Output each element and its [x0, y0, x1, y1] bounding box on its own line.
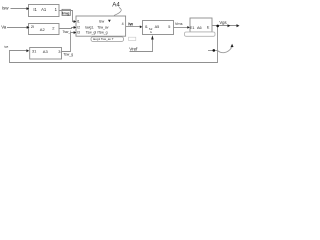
- svg-text:Isw: Isw: [99, 19, 105, 23]
- svg-text:5: 5: [168, 25, 170, 29]
- svg-text:tgs: tgs: [4, 44, 9, 48]
- svg-text:I3: I3: [77, 31, 80, 35]
- svg-text:A1: A1: [41, 7, 47, 12]
- svg-text:E: E: [207, 26, 210, 30]
- svg-text:I1: I1: [145, 25, 148, 29]
- svg-text:A6: A6: [197, 26, 202, 30]
- svg-text:Iavg1 Tsw_av T: Iavg1 Tsw_av T: [93, 37, 114, 41]
- svg-text:Va: Va: [1, 25, 7, 30]
- svg-text:Tsw_g: Tsw_g: [63, 53, 73, 57]
- svg-text:Vgs: Vgs: [219, 20, 226, 25]
- svg-text:Isw: Isw: [2, 6, 10, 11]
- svg-text:4: 4: [122, 22, 124, 26]
- svg-text:2l: 2l: [31, 24, 34, 29]
- svg-text:Iavg1.: Iavg1.: [85, 25, 94, 29]
- svg-text:A3: A3: [43, 49, 49, 54]
- svg-text:Vms: Vms: [175, 22, 183, 26]
- svg-text:/Tsw_g: /Tsw_g: [97, 31, 108, 35]
- svg-text:I2: I2: [77, 25, 80, 29]
- svg-text:A5: A5: [155, 25, 160, 29]
- svg-text:31: 31: [32, 49, 37, 54]
- svg-text:Tsw_gl: Tsw_gl: [86, 31, 97, 35]
- svg-text:I1: I1: [77, 19, 80, 23]
- svg-text:E1: E1: [190, 26, 195, 30]
- svg-text:Tsw_av: Tsw_av: [97, 25, 109, 29]
- svg-text:Iw: Iw: [128, 22, 133, 27]
- svg-text:Img: Img: [62, 11, 70, 16]
- svg-text:Vref: Vref: [129, 47, 138, 52]
- svg-text:A2: A2: [40, 27, 46, 32]
- svg-text:S2: S2: [149, 27, 153, 31]
